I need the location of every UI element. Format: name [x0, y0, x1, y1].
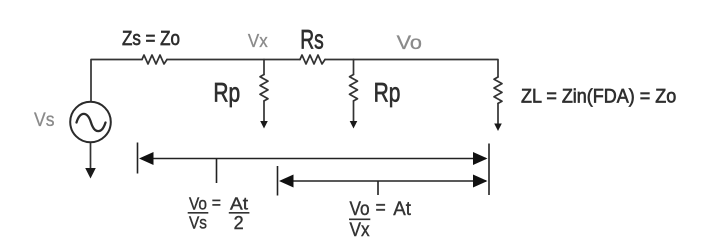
- svg-text:Vo: Vo: [350, 197, 370, 219]
- svg-text:Rs: Rs: [300, 24, 324, 54]
- svg-text:Rp: Rp: [374, 78, 401, 108]
- svg-text:ZL = Zin(FDA) = Zo: ZL = Zin(FDA) = Zo: [521, 85, 676, 107]
- svg-text:At: At: [393, 199, 411, 220]
- svg-text:Vx: Vx: [350, 218, 370, 240]
- svg-text:Zs = Zo: Zs = Zo: [122, 27, 180, 50]
- svg-text:Vs: Vs: [34, 108, 54, 130]
- svg-text:Vs: Vs: [189, 213, 207, 233]
- svg-text:Vo: Vo: [397, 32, 422, 54]
- svg-text:At: At: [230, 193, 249, 213]
- svg-text:2: 2: [234, 213, 244, 233]
- svg-text:=: =: [376, 196, 386, 218]
- svg-text:Rp: Rp: [213, 78, 240, 108]
- svg-text:Vo: Vo: [189, 193, 207, 213]
- svg-text:Vx: Vx: [248, 30, 268, 51]
- svg-text:=: =: [212, 193, 221, 213]
